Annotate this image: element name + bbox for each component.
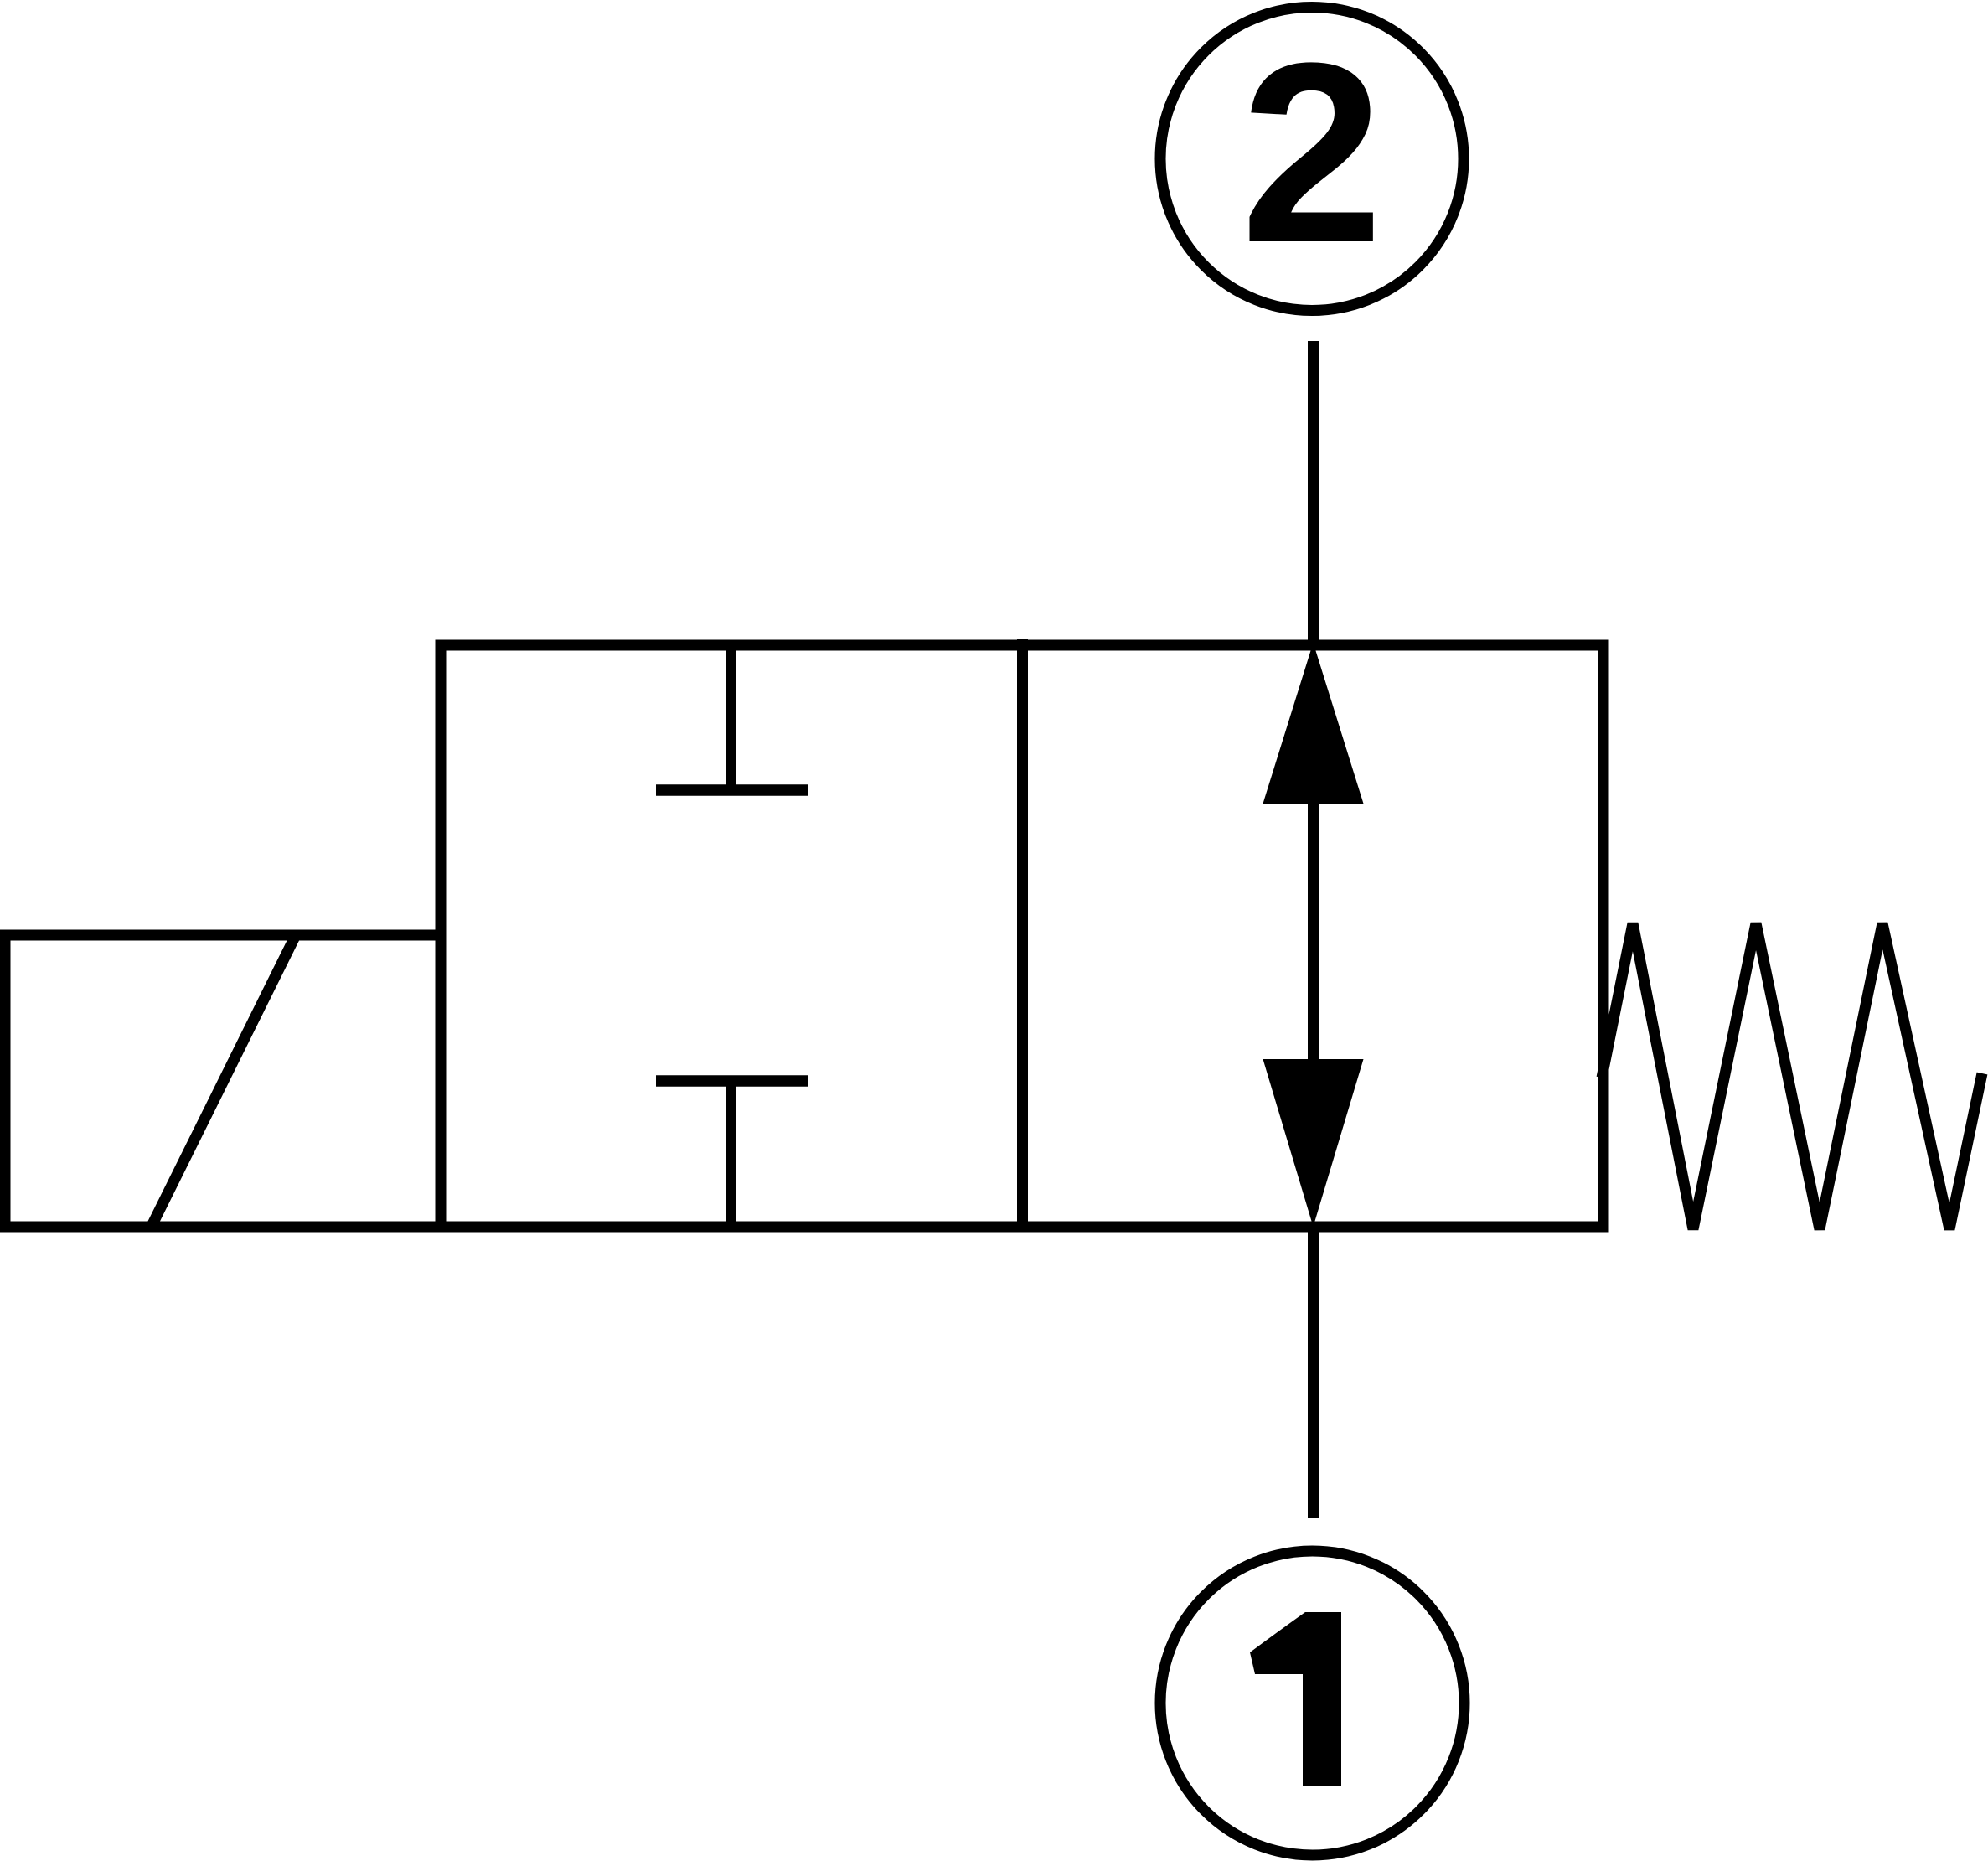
svg-text:2: 2 [1241, 9, 1383, 296]
wire: port 2 line [1308, 341, 1319, 645]
blocked port symbol: upper T (de-energized position) [656, 645, 808, 790]
spring return [1602, 923, 1982, 1229]
flow path: arrowhead down (to port 1) [1263, 1059, 1364, 1227]
solenoid coil box [5, 935, 441, 1227]
label: port number 1 [1250, 1612, 1341, 1786]
wire: port 1 line [1308, 1227, 1319, 1518]
node: port 1 circle [1160, 1551, 1464, 1855]
flow path: connecting stem between arrowheads [1308, 800, 1319, 1062]
valve body: position divider [1017, 639, 1028, 1227]
blocked port symbol: lower T (de-energized position) [656, 1081, 808, 1227]
solenoid coil diagonal [151, 935, 296, 1228]
flow path: arrowhead up (to port 2) [1263, 643, 1364, 804]
valve body: two-position envelope [441, 645, 1603, 1227]
node: port 2 circle [1160, 8, 1464, 311]
